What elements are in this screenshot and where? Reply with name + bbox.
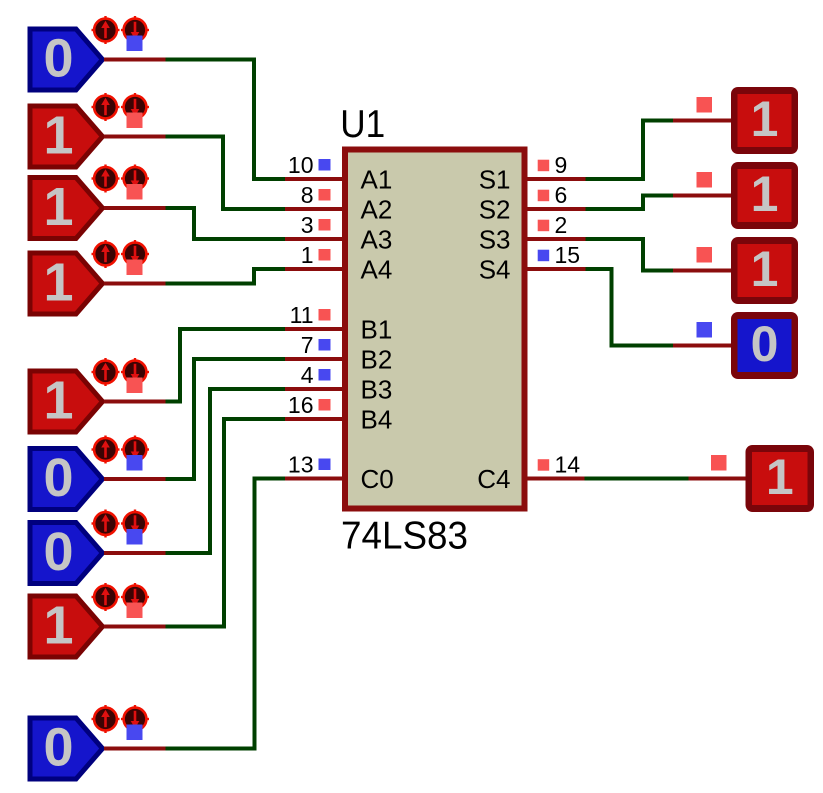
wire S2 to probe: [586, 196, 674, 210]
state square of P9: [127, 725, 143, 741]
svg-text:15: 15: [555, 242, 581, 268]
pin stub C0: [285, 477, 346, 481]
svg-text:10: 10: [288, 152, 314, 178]
up button of P4: [92, 240, 120, 268]
svg-text:0: 0: [43, 29, 73, 89]
pin state square S4: [538, 250, 550, 262]
svg-text:7: 7: [301, 332, 314, 358]
svg-text:1: 1: [43, 596, 73, 656]
wire stub at probe S4: [673, 344, 732, 348]
down button of P9: [121, 705, 149, 733]
svg-text:1: 1: [751, 241, 779, 297]
wire stub of P5: [104, 400, 166, 404]
pin state square A1: [319, 159, 331, 171]
logic input P9 value 0: [30, 718, 103, 780]
pin stub B4: [285, 417, 346, 421]
svg-text:U1: U1: [340, 103, 385, 146]
pin state square A3: [319, 219, 331, 231]
state square of P3: [127, 184, 143, 200]
pin stub B1: [285, 327, 346, 331]
svg-text:B3: B3: [361, 375, 393, 405]
pin stub B3: [285, 387, 346, 391]
svg-text:11: 11: [290, 302, 314, 328]
up button of P3: [92, 165, 120, 193]
state square of probe Q1: [697, 97, 713, 113]
down button of P2: [121, 93, 149, 121]
pin state square S2: [538, 190, 550, 202]
pin stub A3: [285, 237, 346, 241]
wire stub at probe S3: [673, 269, 732, 273]
state square of P8: [127, 603, 143, 619]
svg-text:A1: A1: [361, 165, 393, 195]
pin state square B4: [319, 399, 331, 411]
up button of P9: [92, 705, 120, 733]
wire P1 to chip: [166, 60, 286, 180]
wire P8 to chip: [166, 419, 286, 627]
pin stub A4: [285, 267, 346, 271]
svg-text:S1: S1: [479, 165, 511, 195]
down button of P5: [121, 358, 149, 386]
wire P9 to chip: [166, 479, 286, 749]
logic probe Q2 value 1: [731, 162, 798, 229]
down button of P6: [121, 436, 149, 464]
svg-text:B2: B2: [361, 345, 393, 375]
up button of P7: [92, 510, 120, 538]
wire stub of P1: [104, 58, 166, 62]
svg-text:13: 13: [288, 452, 314, 478]
wire S4 to probe: [586, 269, 674, 346]
wire P4 to chip: [166, 269, 286, 284]
wire P6 to chip: [166, 359, 286, 479]
svg-text:3: 3: [301, 212, 314, 238]
logic input P1 value 0: [30, 29, 103, 91]
logic probe Q3 value 1: [731, 237, 798, 304]
svg-text:2: 2: [555, 212, 568, 238]
svg-text:16: 16: [288, 392, 314, 418]
pin stub S4: [523, 267, 586, 271]
svg-text:0: 0: [43, 522, 73, 582]
logic input P3 value 1: [30, 177, 103, 239]
up button of P6: [92, 436, 120, 464]
logic probe Q1 value 1: [731, 87, 798, 154]
pin state square S3: [538, 220, 550, 232]
wire stub of P6: [104, 477, 166, 481]
pin state square A4: [319, 249, 331, 261]
wire stub of P8: [104, 625, 166, 629]
wire C4 to probe: [585, 477, 689, 481]
wire stub of P2: [104, 135, 166, 139]
wire P3 to chip: [166, 208, 286, 239]
state square of P6: [127, 455, 143, 471]
wire S1 to probe: [586, 121, 674, 180]
pin stub B2: [285, 357, 346, 361]
wire stub of P4: [104, 282, 166, 286]
svg-text:A4: A4: [361, 255, 393, 285]
down button of P4: [121, 240, 149, 268]
logic input P7 value 0: [30, 522, 103, 584]
state square of probe Q4: [697, 322, 713, 338]
svg-text:S3: S3: [479, 225, 511, 255]
svg-text:B4: B4: [361, 405, 393, 435]
svg-text:S4: S4: [479, 255, 511, 285]
wire P2 to chip: [166, 137, 286, 210]
down button of P3: [121, 165, 149, 193]
logic probe Q4 value 0: [731, 312, 798, 379]
wire stub at probe C4: [689, 477, 747, 481]
svg-text:1: 1: [751, 166, 779, 222]
state square of probe Q3: [697, 247, 713, 263]
up button of P5: [92, 358, 120, 386]
wire S3 to probe: [586, 239, 674, 271]
pin stub S3: [523, 237, 586, 241]
pin stub S2: [523, 207, 586, 211]
svg-text:74LS83: 74LS83: [341, 515, 468, 558]
up button of P8: [92, 583, 120, 611]
svg-text:0: 0: [43, 448, 73, 508]
pin stub A2: [285, 207, 346, 211]
svg-text:0: 0: [43, 718, 73, 778]
logic input P4 value 1: [30, 253, 103, 315]
state square of probe Q2: [697, 172, 713, 188]
wire stub of P3: [104, 206, 166, 210]
svg-text:1: 1: [43, 106, 73, 166]
pin state square A2: [319, 189, 331, 201]
pin stub A1: [285, 177, 346, 181]
svg-text:9: 9: [555, 152, 568, 178]
pin state square B3: [319, 369, 331, 381]
svg-text:A2: A2: [361, 195, 393, 225]
svg-text:1: 1: [43, 177, 73, 237]
logic input P5 value 1: [30, 371, 103, 433]
svg-text:1: 1: [43, 253, 73, 313]
logic input P8 value 1: [30, 596, 103, 658]
svg-text:A3: A3: [361, 225, 393, 255]
state square of P2: [127, 113, 143, 129]
logic probe Q5 value 1: [746, 445, 815, 512]
down button of P8: [121, 583, 149, 611]
wire stub of P9: [104, 747, 166, 751]
wire stub of P7: [104, 551, 166, 555]
wire stub at probe S2: [673, 194, 732, 198]
up button of P1: [92, 16, 120, 44]
IC U1 74LS83 body: [345, 150, 525, 509]
wire stub at probe S1: [673, 119, 732, 123]
state square of probe Q5: [711, 455, 727, 471]
wire P7 to chip: [166, 389, 286, 553]
svg-text:1: 1: [766, 449, 794, 505]
down button of P7: [121, 510, 149, 538]
pin stub S1: [523, 177, 586, 181]
svg-text:0: 0: [751, 316, 779, 372]
pin state square C0: [319, 459, 331, 471]
svg-text:1: 1: [43, 371, 73, 431]
svg-text:14: 14: [555, 452, 581, 478]
svg-text:S2: S2: [479, 195, 511, 225]
pin state square B1: [319, 309, 331, 321]
state square of P5: [127, 378, 143, 394]
logic input P6 value 0: [30, 448, 103, 510]
logic input P2 value 1: [30, 106, 103, 168]
svg-text:C4: C4: [477, 464, 510, 494]
state square of P4: [127, 260, 143, 276]
state square of P1: [127, 36, 143, 52]
up button of P2: [92, 93, 120, 121]
state square of P7: [127, 529, 143, 545]
pin state square S1: [538, 160, 550, 172]
down button of P1: [121, 16, 149, 44]
svg-text:1: 1: [301, 242, 314, 268]
svg-text:8: 8: [301, 182, 314, 208]
svg-text:1: 1: [751, 91, 779, 147]
pin state square B2: [319, 339, 331, 351]
svg-text:C0: C0: [361, 464, 394, 494]
svg-text:4: 4: [301, 362, 314, 388]
pin stub C4: [523, 477, 586, 481]
svg-text:6: 6: [555, 182, 568, 208]
svg-text:B1: B1: [361, 315, 393, 345]
wire P5 to chip: [166, 329, 286, 402]
pin state square C4: [538, 459, 550, 471]
